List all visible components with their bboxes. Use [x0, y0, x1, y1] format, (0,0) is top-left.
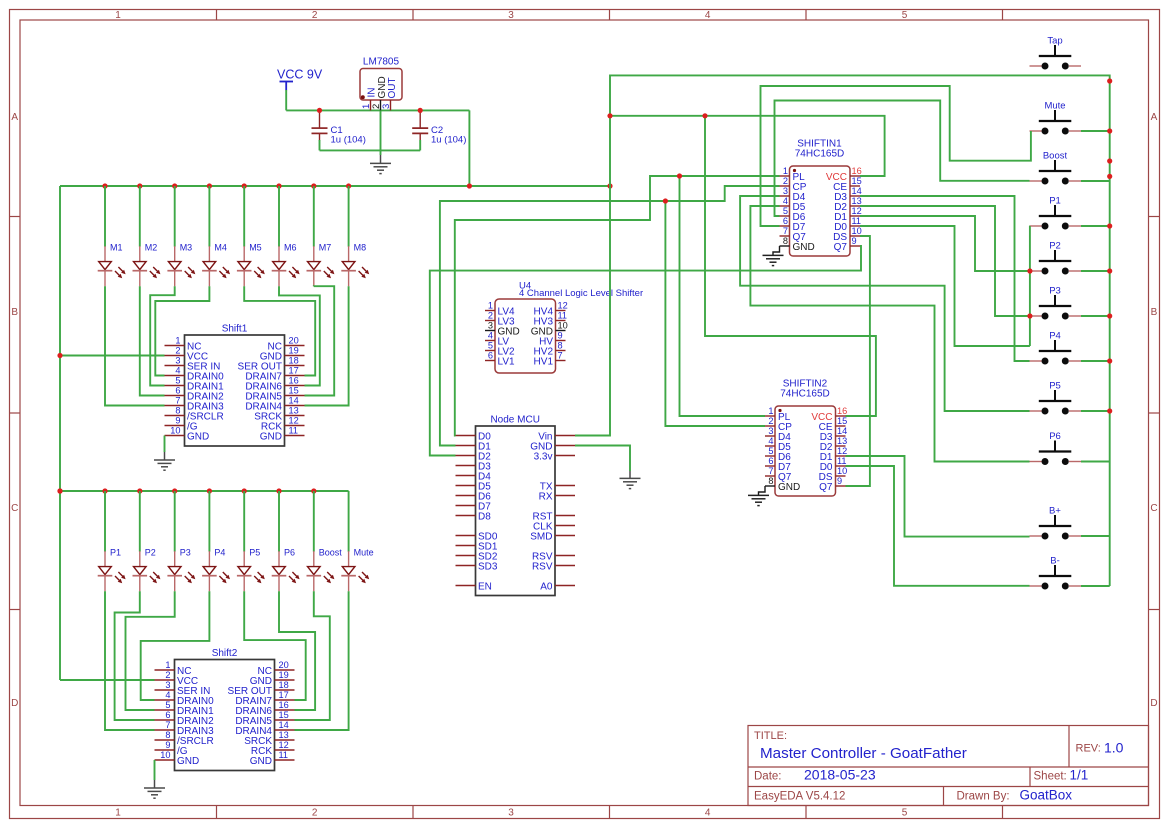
svg-text:Q7: Q7 [819, 482, 833, 493]
pushbutton Mute [1030, 101, 1082, 135]
svg-text:8: 8 [768, 476, 773, 486]
svg-text:LM7805: LM7805 [363, 57, 400, 68]
svg-text:3: 3 [175, 356, 180, 366]
svg-text:7: 7 [768, 466, 773, 476]
frame column labels [115, 10, 908, 818]
svg-text:6: 6 [768, 456, 773, 466]
svg-text:M7: M7 [319, 243, 332, 253]
svg-text:Mute: Mute [354, 548, 374, 558]
svg-text:P2: P2 [145, 548, 156, 558]
junction latch branch [677, 173, 682, 178]
wire 5V VCC line y=115.8 [610, 116, 885, 176]
svg-text:2: 2 [175, 346, 180, 356]
svg-text:3: 3 [508, 10, 514, 21]
wire LED M3 anode [174, 186, 176, 247]
svg-text:2: 2 [312, 10, 318, 21]
svg-text:2: 2 [768, 416, 773, 426]
LED Boost (row2) [307, 548, 343, 592]
pushbutton P1 [1030, 196, 1082, 230]
svg-text:GoatBox: GoatBox [1020, 788, 1073, 803]
svg-text:P1: P1 [1049, 196, 1061, 207]
wire VCC to Shift1 pin2 [60, 355, 165, 357]
svg-text:16: 16 [279, 700, 289, 710]
svg-text:2: 2 [783, 176, 788, 186]
IC SHIFTIN1 [780, 139, 862, 257]
ground (power section) [370, 155, 391, 174]
svg-text:12: 12 [289, 416, 299, 426]
svg-text:EN: EN [478, 581, 492, 592]
svg-text:8: 8 [783, 236, 788, 246]
junction P2 left [1027, 268, 1032, 273]
wire M3 to Shift1 DRAIN1 [150, 286, 175, 385]
svg-text:M6: M6 [284, 243, 297, 253]
svg-text:12: 12 [279, 740, 289, 750]
svg-text:REV:: REV: [1076, 743, 1101, 755]
IC Shift1 [165, 324, 305, 447]
svg-text:1/1: 1/1 [1070, 768, 1089, 783]
svg-text:9: 9 [837, 476, 842, 486]
svg-text:1: 1 [175, 336, 180, 346]
pushbutton P3 [1030, 286, 1082, 320]
svg-text:GND: GND [260, 431, 282, 442]
svg-text:OUT: OUT [387, 77, 398, 98]
IC U4 level shifter [485, 281, 643, 374]
wire regulator output rail drop to 5V bus [468, 110, 470, 186]
svg-text:14: 14 [852, 186, 862, 196]
svg-text:16: 16 [837, 406, 847, 416]
svg-text:RSV: RSV [532, 561, 553, 572]
svg-text:Boost: Boost [1043, 151, 1068, 162]
wire LED P1 anode [104, 491, 106, 552]
wire P6 right to bus [1081, 461, 1110, 463]
svg-text:D: D [1150, 698, 1157, 709]
LED Mute (row2) [341, 548, 373, 592]
svg-text:1.0: 1.0 [1104, 740, 1124, 756]
wire NodeMCU GND to ground [575, 446, 630, 472]
wire Boost right to bus [1081, 180, 1110, 182]
wire P5led to Shift2 DRAIN7 [244, 591, 306, 700]
svg-text:14: 14 [837, 426, 847, 436]
wire LED M2 anode [139, 186, 141, 247]
svg-text:13: 13 [852, 196, 862, 206]
wire LED Boost anode [313, 491, 315, 552]
svg-text:Master Controller - GoatFather: Master Controller - GoatFather [760, 745, 967, 762]
wire P1 right to bus [1081, 225, 1110, 227]
wire Shift2 GND to ground [154, 760, 156, 780]
wire P6led to Shift2 DRAIN6 [279, 591, 315, 710]
svg-text:6: 6 [783, 216, 788, 226]
svg-text:10: 10 [160, 750, 170, 760]
ground (Shift2) [144, 780, 165, 798]
svg-text:7: 7 [175, 396, 180, 406]
frame row labels [11, 112, 1158, 709]
svg-text:3: 3 [381, 104, 392, 109]
svg-text:Shift2: Shift2 [212, 648, 238, 659]
svg-text:5: 5 [175, 376, 180, 386]
wire D6 net to Boost button [775, 101, 1030, 217]
svg-text:5: 5 [902, 10, 908, 21]
svg-text:5: 5 [165, 700, 170, 710]
wire D0 net lower [860, 226, 1030, 346]
svg-text:Date:: Date: [754, 771, 782, 783]
wire LED M4 anode [208, 186, 210, 247]
LED M1 [98, 243, 126, 287]
svg-text:1: 1 [165, 660, 170, 670]
junction VCC spine Shift1 [57, 353, 62, 358]
svg-text:10: 10 [558, 321, 568, 331]
svg-text:3: 3 [768, 426, 773, 436]
wire M8 to Shift1 DRAIN4 [305, 286, 349, 405]
capacitor C2 [412, 110, 466, 145]
wire SHIFTIN2 D1 to B+ [846, 456, 1030, 537]
svg-text:3: 3 [783, 186, 788, 196]
svg-text:6: 6 [165, 710, 170, 720]
wire Mute right to bus [1081, 130, 1110, 132]
svg-text:P6: P6 [284, 548, 295, 558]
wire B- right to bus [1081, 585, 1110, 587]
pushbutton P2 [1030, 241, 1082, 275]
svg-text:Node MCU: Node MCU [490, 415, 539, 426]
ground (Shift1) [154, 452, 175, 470]
svg-text:3: 3 [488, 321, 493, 331]
svg-text:2: 2 [312, 808, 318, 819]
svg-text:18: 18 [289, 356, 299, 366]
wire LED M6 anode [278, 186, 280, 247]
ground (Node MCU) [620, 471, 641, 489]
voltage regulator U LM7805 [360, 57, 402, 111]
svg-text:2: 2 [488, 311, 493, 321]
svg-text:4 Channel Logic Level Shifter: 4 Channel Logic Level Shifter [519, 288, 643, 299]
svg-text:Q7: Q7 [834, 242, 848, 253]
svg-text:4: 4 [175, 366, 180, 376]
LED M8 [341, 243, 369, 287]
svg-text:1: 1 [768, 406, 773, 416]
wire 5V branch to SHIFTIN2 VCC [705, 116, 876, 416]
svg-text:11: 11 [837, 456, 847, 466]
wire 5V: regulator out to Vin and right bus [610, 75, 1110, 586]
svg-text:4: 4 [705, 10, 711, 21]
svg-text:1: 1 [783, 166, 788, 176]
svg-text:B: B [11, 307, 18, 318]
wire BoostLed to Shift2 DRAIN5 [295, 591, 330, 720]
LED P2 (row2) [133, 548, 161, 592]
wire input rail y=110 [286, 109, 469, 111]
wire D1 net to P2 button [860, 216, 1030, 271]
pushbutton Boost [1030, 151, 1082, 185]
svg-text:11: 11 [852, 216, 862, 226]
wire LED P4 anode [208, 491, 210, 552]
wire P1-P2-P3 left link [1029, 226, 1031, 346]
svg-text:1u (104): 1u (104) [431, 135, 466, 146]
LED M7 [307, 243, 335, 287]
LED M4 [202, 243, 230, 287]
svg-text:C: C [11, 503, 18, 514]
svg-text:1: 1 [488, 301, 493, 311]
junction VCC spine bus2 [57, 488, 62, 493]
svg-text:A0: A0 [540, 581, 553, 592]
junction dots on right bus [1107, 78, 1112, 413]
wire M1 to Shift1 DRAIN3 [105, 286, 165, 405]
wire M2 to Shift1 DRAIN2 [140, 286, 165, 395]
wire latch: NodeMCU D0 to PL pins [455, 176, 780, 436]
svg-text:13: 13 [289, 406, 299, 416]
svg-text:GND: GND [187, 431, 209, 442]
wire clock: NodeMCU D1 to CP pins [440, 186, 780, 446]
pushbutton P5 [1030, 381, 1082, 415]
title block [748, 726, 1149, 806]
wire vcc9v to input rail [285, 90, 287, 110]
svg-text:A: A [11, 112, 18, 123]
svg-text:15: 15 [279, 710, 289, 720]
svg-text:19: 19 [279, 670, 289, 680]
svg-text:SMD: SMD [530, 531, 552, 542]
wire regulator gnd drop [380, 110, 382, 155]
svg-text:14: 14 [289, 396, 299, 406]
pushbutton Tap [1030, 36, 1082, 70]
svg-text:2018-05-23: 2018-05-23 [804, 767, 876, 783]
svg-text:12: 12 [852, 206, 862, 216]
pushbutton P6 [1030, 431, 1082, 465]
LED P3 (row2) [167, 548, 195, 592]
wire LED M8 anode [348, 186, 350, 247]
svg-text:5: 5 [902, 808, 908, 819]
wire Shift1 GND to ground [164, 436, 166, 453]
vcc symbol [280, 82, 294, 91]
svg-text:GND: GND [177, 756, 199, 767]
LED M6 [272, 243, 300, 287]
svg-text:4: 4 [705, 808, 711, 819]
LED P5 (row2) [237, 548, 265, 592]
wire P1 left stub join [1029, 225, 1031, 227]
svg-text:7: 7 [783, 226, 788, 236]
wire P5 right to bus [1081, 410, 1110, 412]
wire 5V down to NodeMCU Vin [575, 186, 610, 436]
wire M5 to Shift1 DRAIN7 [244, 286, 315, 375]
wire MuteLed to Shift2 DRAIN4 [295, 591, 349, 730]
svg-text:Tap: Tap [1047, 36, 1062, 47]
svg-text:9: 9 [852, 236, 857, 246]
IC SHIFTIN2 [765, 379, 847, 497]
LED M3 [167, 243, 195, 287]
svg-text:P4: P4 [1049, 331, 1061, 342]
svg-text:P5: P5 [249, 548, 260, 558]
wire D7 net to Mute button [761, 86, 1031, 226]
svg-text:P6: P6 [1049, 431, 1061, 442]
svg-text:A: A [1151, 112, 1158, 123]
svg-text:LV1: LV1 [498, 356, 515, 367]
svg-text:P5: P5 [1049, 381, 1061, 392]
svg-text:3: 3 [165, 680, 170, 690]
svg-text:74HC165D: 74HC165D [795, 149, 844, 160]
wire cascade: SHIFTIN1 DS to SHIFTIN2 Q7 [846, 236, 870, 486]
svg-text:20: 20 [279, 660, 289, 670]
svg-text:4: 4 [768, 436, 773, 446]
wire M4 to Shift1 DRAIN0 [155, 286, 209, 375]
wire C2 bottom [419, 140, 421, 150]
svg-text:Mute: Mute [1044, 101, 1065, 112]
svg-text:74HC165D: 74HC165D [780, 389, 829, 400]
wire latch branch to SHIFTIN2 PL [680, 176, 766, 416]
wire left power spine x=60 [59, 186, 61, 680]
junction 5V vccline start [607, 113, 612, 118]
svg-text:15: 15 [852, 176, 862, 186]
svg-text:6: 6 [175, 386, 180, 396]
svg-text:8: 8 [175, 406, 180, 416]
svg-text:15: 15 [289, 386, 299, 396]
wire LED P5 anode [243, 491, 245, 552]
LED P1 (row2) [98, 548, 126, 592]
svg-text:P2: P2 [1049, 241, 1061, 252]
wire 5V LED bus row2 [60, 490, 349, 492]
wire B+ right to bus [1081, 535, 1110, 537]
svg-text:B+: B+ [1049, 506, 1061, 517]
svg-text:7: 7 [165, 720, 170, 730]
svg-text:8: 8 [165, 730, 170, 740]
svg-text:SD3: SD3 [478, 561, 498, 572]
junction dots on LED bus row1 [102, 183, 612, 188]
wire LED M7 anode [313, 186, 315, 247]
svg-text:8: 8 [558, 341, 563, 351]
junction dots on LED bus row2 [57, 488, 316, 493]
IC Node MCU [456, 415, 576, 596]
svg-text:13: 13 [837, 436, 847, 446]
LED M5 [237, 243, 265, 287]
svg-text:18: 18 [279, 680, 289, 690]
wire LED M5 anode [243, 186, 245, 247]
svg-text:4: 4 [165, 690, 170, 700]
svg-text:GND: GND [778, 482, 800, 493]
LED P4 (row2) [202, 548, 230, 592]
svg-text:Drawn By:: Drawn By: [957, 791, 1010, 803]
svg-text:17: 17 [289, 366, 299, 376]
svg-text:10: 10 [837, 466, 847, 476]
wire P4led to Shift2 DRAIN0 [141, 591, 210, 700]
wire LED P6 anode [278, 491, 280, 552]
svg-text:M5: M5 [249, 243, 262, 253]
wire P2led to Shift2 DRAIN2 [115, 591, 155, 720]
svg-text:P3: P3 [180, 548, 191, 558]
wire D4 net to P5 button [740, 196, 1029, 411]
svg-text:EasyEDA V5.4.12: EasyEDA V5.4.12 [754, 791, 845, 803]
wire D3 net to P4 button [860, 196, 1030, 361]
svg-text:GND: GND [793, 242, 815, 253]
wire D2 net to P3 button [860, 206, 1030, 316]
wire data: SHIFTIN1 Q7 to NodeMCU D2 [430, 246, 861, 456]
wire clock branch to SHIFTIN2 CP [665, 201, 765, 426]
svg-text:10: 10 [852, 226, 862, 236]
wire VCC to Shift2 pin2 [60, 679, 155, 681]
junction clock branch [663, 198, 668, 203]
svg-text:9: 9 [165, 740, 170, 750]
wire P1led to Shift2 DRAIN3 [105, 591, 155, 730]
LED M2 [133, 243, 161, 287]
svg-text:IN: IN [367, 88, 378, 98]
svg-text:5: 5 [488, 341, 493, 351]
wire M6 to Shift1 DRAIN6 [279, 286, 320, 385]
svg-text:4: 4 [783, 196, 788, 206]
wire SHIFTIN2 D0 to B- [846, 466, 1030, 586]
svg-text:17: 17 [279, 690, 289, 700]
wire 5V LED bus row1 [60, 185, 610, 187]
svg-text:11: 11 [558, 311, 568, 321]
svg-text:M8: M8 [354, 243, 367, 253]
svg-text:5: 5 [768, 446, 773, 456]
junction rail C1 [317, 108, 322, 113]
ground (SHIFTIN1) [763, 246, 784, 266]
svg-text:GND: GND [250, 756, 272, 767]
svg-text:P1: P1 [110, 548, 121, 558]
wire LED P2 anode [139, 491, 141, 552]
ground (SHIFTIN2) [748, 486, 769, 506]
svg-text:9: 9 [558, 331, 563, 341]
svg-text:RX: RX [539, 491, 553, 502]
svg-text:Sheet:: Sheet: [1034, 771, 1067, 783]
svg-text:11: 11 [279, 750, 289, 760]
svg-text:Boost: Boost [319, 548, 343, 558]
svg-text:3.3v: 3.3v [534, 451, 553, 462]
svg-text:D: D [11, 698, 18, 709]
wire LED P3 anode [174, 491, 176, 552]
svg-text:M4: M4 [214, 243, 227, 253]
LED P6 (row2) [272, 548, 300, 592]
wire P2 right to bus [1081, 270, 1110, 272]
wire D5 net to P6 button [750, 206, 1029, 462]
svg-text:9: 9 [175, 416, 180, 426]
title block texts [754, 730, 1124, 803]
capacitor C1 [312, 110, 366, 145]
svg-text:12: 12 [558, 301, 568, 311]
svg-text:6: 6 [488, 351, 493, 361]
pushbutton B+ [1030, 506, 1082, 540]
pushbutton B- [1030, 556, 1082, 590]
svg-text:B-: B- [1050, 556, 1060, 567]
svg-text:1u (104): 1u (104) [331, 135, 366, 146]
svg-text:5: 5 [783, 206, 788, 216]
junction 5V branch [702, 113, 707, 118]
svg-text:16: 16 [852, 166, 862, 176]
svg-text:14: 14 [279, 720, 289, 730]
svg-text:M2: M2 [145, 243, 158, 253]
svg-text:D8: D8 [478, 511, 491, 522]
junction P3 left [1027, 313, 1032, 318]
svg-text:VCC 9V: VCC 9V [277, 68, 323, 82]
svg-text:P4: P4 [214, 548, 225, 558]
pushbutton P4 [1030, 331, 1082, 365]
svg-text:M1: M1 [110, 243, 123, 253]
wire P3 right to bus [1081, 315, 1110, 317]
wire ground rail y=150 [320, 149, 421, 151]
svg-text:13: 13 [279, 730, 289, 740]
svg-text:Shift1: Shift1 [222, 324, 248, 335]
svg-text:7: 7 [558, 351, 563, 361]
svg-text:HV1: HV1 [534, 356, 554, 367]
svg-text:M3: M3 [180, 243, 193, 253]
wire M7 to Shift1 DRAIN5 [305, 286, 335, 395]
svg-text:19: 19 [289, 346, 299, 356]
wire LED Mute anode [348, 491, 350, 552]
svg-text:4: 4 [488, 331, 493, 341]
svg-text:2: 2 [165, 670, 170, 680]
IC Shift2 [155, 648, 295, 771]
svg-text:TITLE:: TITLE: [754, 730, 787, 742]
svg-text:12: 12 [837, 446, 847, 456]
svg-text:10: 10 [170, 426, 180, 436]
svg-text:11: 11 [289, 426, 299, 436]
svg-text:B: B [1151, 307, 1158, 318]
svg-text:20: 20 [289, 336, 299, 346]
wire C1 bottom [319, 140, 321, 150]
svg-text:1: 1 [115, 808, 121, 819]
